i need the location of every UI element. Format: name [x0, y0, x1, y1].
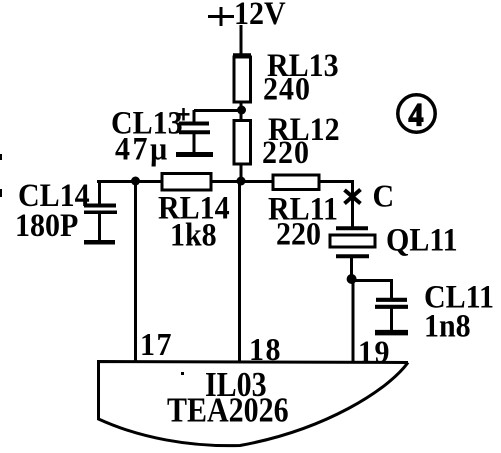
label CL14 [18, 177, 90, 214]
svg-text:180P: 180P [15, 207, 78, 244]
wire RL12 to junction [240, 163, 243, 182]
wire pin 18 [238, 181, 241, 361]
IC IL03 TEA2026 outline [99, 362, 409, 446]
value 220 (RL11) [276, 215, 321, 252]
pin label 18 [249, 332, 282, 367]
svg-text:220: 220 [262, 134, 310, 171]
resistor RL14 [162, 174, 211, 191]
svg-text:220: 220 [276, 215, 321, 252]
label CL11 [424, 278, 494, 315]
scan speck left edge upper [0, 154, 2, 160]
net +12V label [234, 0, 286, 31]
crystal QL11 [330, 228, 375, 277]
label RL14 [158, 189, 230, 226]
svg-text:19: 19 [358, 335, 391, 370]
figure number circled 4 [398, 95, 435, 133]
label QL11 [386, 221, 458, 258]
main horizontal wire [97, 180, 352, 183]
label RL13 [267, 47, 339, 84]
wire junction to CL13 [194, 109, 241, 112]
scan speck near IL03 [181, 372, 184, 375]
capacitor CL14 [84, 181, 117, 242]
value 1n8 [424, 307, 471, 344]
value 1k8 [170, 216, 217, 253]
svg-text:QL11: QL11 [386, 221, 458, 258]
value 180P [15, 207, 78, 244]
value 47u [115, 130, 170, 167]
capacitor CL11 [375, 300, 408, 333]
svg-text:C: C [373, 179, 395, 214]
resistor RL12 [234, 121, 251, 165]
wire RL11 to node C corner [319, 182, 353, 229]
svg-text:TEA2026: TEA2026 [167, 391, 289, 429]
svg-text:1n8: 1n8 [424, 307, 471, 344]
wire +12V to RL13 [240, 25, 243, 58]
svg-text:4: 4 [409, 96, 424, 133]
net +12V plus symbol [208, 7, 234, 26]
label TEA2026 [167, 391, 289, 429]
junction dot pin17 branch [131, 177, 140, 186]
value 240 [263, 70, 311, 107]
resistor RL13 [233, 55, 251, 103]
junction dot center pin18 branch [237, 177, 246, 186]
pin label 17 [140, 327, 173, 362]
resistor RL11 [273, 175, 319, 190]
wire RL13 to RL12 [240, 102, 243, 121]
junction dot below crystal [347, 274, 357, 284]
scan speck left edge lower [0, 189, 2, 197]
wire pin 19 [352, 281, 355, 361]
svg-text:1k8: 1k8 [170, 216, 217, 253]
capacitor CL13 [176, 110, 213, 155]
junction dot RL13/RL12/CL13 [237, 106, 246, 115]
label RL11 [268, 190, 338, 227]
node C cross mark [345, 190, 361, 204]
wire junction to CL11 [352, 281, 392, 299]
wire pin 17 [134, 181, 137, 361]
label RL12 [268, 111, 340, 148]
label CL13 [111, 104, 183, 141]
label IL03 [205, 365, 267, 403]
svg-text:240: 240 [263, 70, 311, 107]
svg-text:17: 17 [140, 327, 173, 362]
label C [373, 179, 395, 214]
pin label 19 [358, 335, 391, 370]
svg-text:47µ: 47µ [115, 130, 170, 167]
value 220 [262, 134, 310, 171]
polarity plus of CL13 [178, 108, 190, 121]
